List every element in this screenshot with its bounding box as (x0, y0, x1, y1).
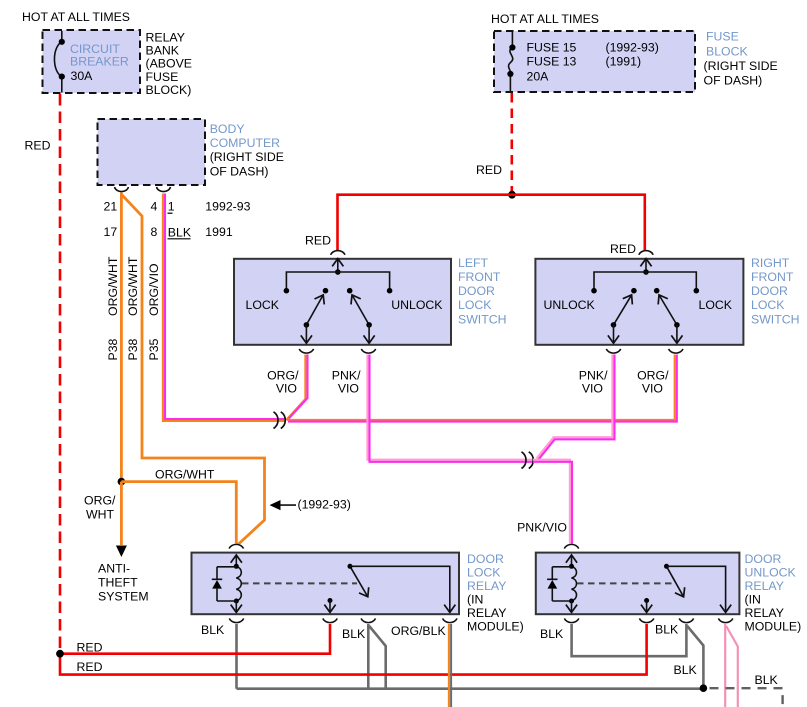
svg-text:BLK: BLK (674, 663, 698, 677)
svg-text:RELAY: RELAY (146, 31, 185, 45)
body computer connector cup (pin 21/17) (115, 187, 129, 192)
svg-text:MODULE): MODULE) (467, 620, 524, 634)
left switch: pin arrows down (305, 325, 307, 343)
svg-text:(IN: (IN (467, 593, 483, 607)
lock relay: contact arm (350, 566, 368, 597)
wire: PNK/VIO from right switch (violet stripe) (538, 355, 614, 460)
svg-text:RED: RED (77, 641, 103, 655)
svg-text:RELAY: RELAY (745, 606, 784, 620)
wire: BLK from door lock relay pin 1 (235, 624, 238, 689)
unlock relay: coil (572, 566, 577, 601)
left switch: contact dots (284, 288, 290, 294)
svg-text:SWITCH: SWITCH (751, 312, 800, 326)
svg-text:FUSE 13: FUSE 13 (527, 55, 577, 69)
svg-text:RED: RED (77, 660, 103, 674)
svg-text:UNLOCK: UNLOCK (745, 566, 797, 580)
svg-text:ORG/: ORG/ (84, 494, 116, 508)
svg-text:LOCK: LOCK (467, 566, 501, 580)
svg-text:SWITCH: SWITCH (458, 312, 507, 326)
wire: PNK/VIO to door unlock relay (pink stripe) (533, 460, 570, 544)
svg-text:UNLOCK: UNLOCK (391, 298, 443, 312)
node: BLK ground junction dot (700, 684, 708, 692)
unlock relay: top connector cap (564, 544, 578, 548)
right switch: common arrow up (645, 259, 647, 272)
svg-text:HOT AT ALL TIMES: HOT AT ALL TIMES (22, 10, 130, 24)
wire: ORG/VIO to right switch (violet stripe) (288, 355, 677, 422)
svg-text:LOCK: LOCK (699, 298, 733, 312)
svg-text:RED: RED (610, 242, 636, 256)
svg-text:UNLOCK: UNLOCK (544, 298, 596, 312)
svg-text:BANK: BANK (146, 44, 180, 58)
right switch: UNLOCK wiper arm (614, 295, 632, 325)
wire: RED from door lock relay pin 2 (60, 624, 330, 654)
svg-text:COMPUTER: COMPUTER (210, 136, 280, 150)
wire: ORG/WHT #1 from body computer pin 21/17 (120, 193, 123, 482)
svg-text:BREAKER: BREAKER (70, 54, 129, 68)
svg-text:BLK: BLK (540, 627, 564, 641)
anti-theft branch arrow (120, 482, 123, 545)
svg-text:DOOR: DOOR (467, 552, 504, 566)
svg-text:OF DASH): OF DASH) (210, 164, 269, 178)
wire: ORG/VIO from left switch (orange stripe) (286, 355, 305, 420)
right switch: top bar (594, 272, 696, 291)
splice crossover symbol (PNK/VIO) (522, 452, 526, 469)
wire: ORG/VIO from left switch (violet stripe) (289, 355, 308, 419)
note arrow (1992-93) (278, 504, 296, 506)
left switch: common node dot (335, 269, 341, 275)
svg-text:BLK: BLK (755, 673, 779, 687)
svg-text:RELAY: RELAY (745, 579, 784, 593)
wire: RED from door unlock relay pin 2 (60, 624, 647, 675)
right switch: wiper pivot dots (611, 322, 617, 328)
door lock relay box (192, 553, 460, 615)
svg-text:OF DASH): OF DASH) (704, 74, 763, 88)
fuse block box (494, 31, 695, 92)
svg-text:SYSTEM: SYSTEM (98, 590, 149, 604)
wire: ORG/VIO from body computer pin 1/BLK (violet stripe) (165, 194, 286, 420)
right switch: bottom connector cups (606, 349, 620, 353)
body computer connector cup (pin 4/8 and 1) (157, 187, 171, 192)
lock relay: top connector cap (229, 544, 243, 548)
svg-text:RED: RED (476, 163, 502, 177)
door unlock relay box (536, 553, 740, 615)
right switch: top connector cap (639, 251, 653, 255)
svg-text:DOOR: DOOR (458, 284, 495, 298)
unlock relay: coil bottom arrow (571, 601, 573, 612)
unlock relay: contact arm (667, 566, 684, 597)
node: red junction on dashed feed (56, 650, 64, 658)
svg-text:DOOR: DOOR (745, 552, 782, 566)
lock relay: pin 2 stub (328, 598, 333, 603)
svg-text:PNK/VIO: PNK/VIO (517, 521, 567, 535)
svg-text:BLK: BLK (168, 225, 192, 239)
left switch: wiper pivot dots (304, 322, 310, 328)
svg-text:ORG/WHT: ORG/WHT (106, 256, 120, 316)
svg-text:P38: P38 (106, 338, 120, 360)
svg-text:FUSE: FUSE (706, 29, 739, 43)
wire: BLK ground bus (lock relay to junction) (237, 687, 704, 690)
wire: ORG/BLK from door lock relay pin 4 (orange stripe) (448, 624, 450, 707)
unlock relay: contact to pin 4 (667, 566, 726, 612)
wire: BLK from door lock relay pin 3 (367, 624, 370, 689)
svg-text:17: 17 (104, 225, 118, 239)
svg-text:LEFT: LEFT (458, 256, 489, 270)
svg-text:FUSE 15: FUSE 15 (527, 41, 577, 55)
lock relay: bottom connector cups (229, 618, 243, 622)
svg-text:BLOCK: BLOCK (706, 44, 748, 58)
lock relay: contact to pin 4 (350, 566, 450, 612)
wire: BLK jumper door unlock relay pins 1-3 (572, 624, 687, 656)
wire: ORG/WHT #2 from body computer pin 4/8 (122, 195, 265, 545)
circuit breaker symbol (54, 31, 61, 93)
svg-text:VIO: VIO (276, 382, 297, 396)
unlock relay: coil-contact dashed link (577, 582, 673, 584)
wire: ORG/VIO to right switch (orange stripe) (287, 355, 675, 420)
svg-text:BLOCK): BLOCK) (146, 83, 192, 97)
left switch: top bar (286, 272, 389, 291)
left switch: top connector cap (331, 251, 345, 255)
svg-text:PNK/: PNK/ (332, 369, 361, 383)
unlock relay: pin 2 stub (644, 598, 649, 603)
svg-text:WHT: WHT (86, 508, 114, 522)
svg-text:(1991): (1991) (606, 55, 642, 69)
wire: red feed to both door lock switches (338, 195, 645, 251)
svg-text:DOOR: DOOR (751, 284, 788, 298)
svg-text:LOCK: LOCK (458, 298, 492, 312)
svg-text:RIGHT: RIGHT (751, 256, 790, 270)
wire: PNK from door unlock relay pin 4 (second) (726, 626, 738, 707)
wire: ORG/VIO from body computer pin 1/BLK (orange stripe) (163, 194, 286, 422)
svg-text:MODULE): MODULE) (745, 620, 802, 634)
wire: BLK dashed to ground (710, 688, 783, 706)
wire: red dashed from fuse block to junction (510, 93, 513, 191)
svg-text:(RIGHT SIDE: (RIGHT SIDE (210, 150, 284, 164)
svg-text:RELAY: RELAY (467, 579, 506, 593)
lock relay: coil (236, 566, 241, 601)
svg-text:ORG/WHT: ORG/WHT (155, 468, 215, 482)
svg-text:P38: P38 (126, 338, 140, 360)
circuit breaker box (relay bank) (43, 30, 141, 93)
svg-text:21: 21 (104, 200, 118, 214)
svg-text:1991: 1991 (205, 225, 233, 239)
svg-text:P35: P35 (147, 338, 161, 360)
svg-text:BLK: BLK (201, 623, 225, 637)
right switch: contact dots (591, 288, 597, 294)
svg-text:THEFT: THEFT (98, 576, 138, 590)
svg-text:FUSE: FUSE (146, 70, 179, 84)
svg-text:1992-93: 1992-93 (205, 200, 250, 214)
svg-text:ANTI-: ANTI- (98, 562, 130, 576)
lock relay: diode D1 (212, 567, 237, 601)
wire: PNK from door unlock relay pin 4 (first) (724, 624, 726, 707)
right switch: pin arrows down (613, 325, 615, 343)
left switch: UNLOCK wiper arm (352, 295, 369, 325)
svg-text:BLK: BLK (655, 623, 679, 637)
lock relay: coil-contact dashed link (242, 582, 357, 584)
svg-text:VIO: VIO (338, 382, 359, 396)
right switch: LOCK wiper arm (659, 295, 677, 325)
svg-text:(ABOVE: (ABOVE (146, 57, 192, 71)
svg-text:BLK: BLK (342, 627, 366, 641)
wire: PNK/VIO from right switch (pink stripe) (537, 355, 613, 459)
node: ORG/WHT junction dot (118, 478, 126, 486)
svg-text:4: 4 (151, 200, 158, 214)
left switch: bottom connector cups (299, 349, 313, 353)
svg-text:VIO: VIO (642, 382, 663, 396)
wire: PNK/VIO to door unlock relay (violet stripe) (533, 462, 572, 544)
svg-text:(IN: (IN (745, 593, 761, 607)
left switch: LOCK wiper arm (306, 295, 323, 325)
svg-text:8: 8 (151, 225, 158, 239)
svg-text:30A: 30A (71, 69, 94, 83)
svg-text:FRONT: FRONT (751, 270, 794, 284)
lock relay: coil top arrow (235, 555, 237, 566)
svg-text:ORG/VIO: ORG/VIO (147, 263, 161, 316)
wire: ORG/WHT #1 to door lock relay (121, 482, 236, 544)
svg-text:RED: RED (25, 139, 51, 153)
svg-text:ORG/: ORG/ (637, 369, 669, 383)
fuse symbol (509, 32, 513, 92)
wire: BLK branch from lock relay pin 3 (369, 626, 386, 689)
wire: BLK branch from unlock relay pin 3 to ground junction (687, 626, 703, 687)
svg-text:PNK/: PNK/ (579, 369, 608, 383)
unlock relay: bottom connector cups (564, 618, 578, 622)
svg-text:(1992-93): (1992-93) (606, 41, 659, 55)
right front door lock switch box (535, 259, 743, 345)
svg-text:RED: RED (305, 234, 331, 248)
svg-text:FRONT: FRONT (458, 270, 501, 284)
wire: ORG/BLK from door lock relay pin 4 (black stripe) (450, 624, 452, 707)
svg-text:LOCK: LOCK (751, 298, 785, 312)
wire: PNK/VIO from left switch (pink stripe) (367, 355, 533, 460)
lock relay: coil bottom arrow (235, 601, 237, 612)
right switch: common node dot (643, 269, 649, 275)
svg-text:ORG/BLK: ORG/BLK (391, 624, 446, 638)
svg-text:BODY: BODY (210, 122, 245, 136)
body computer box (98, 119, 206, 185)
svg-text:(1992-93): (1992-93) (298, 498, 351, 512)
svg-text:ORG/WHT: ORG/WHT (126, 256, 140, 316)
wire: PNK/VIO from left switch (violet stripe) (370, 355, 534, 462)
svg-text:1: 1 (168, 200, 175, 214)
svg-text:20A: 20A (527, 70, 550, 84)
left front door lock switch box (234, 259, 451, 345)
unlock relay: coil top arrow (571, 555, 573, 566)
svg-text:HOT AT ALL TIMES: HOT AT ALL TIMES (491, 12, 599, 26)
svg-text:LOCK: LOCK (246, 298, 280, 312)
wire: red dashed from circuit breaker down left side (59, 94, 62, 667)
splice crossover symbol (ORG/VIO) (274, 412, 278, 429)
node: red junction dot (508, 191, 516, 199)
svg-text:ORG/: ORG/ (267, 369, 299, 383)
unlock relay: diode D2 (547, 567, 571, 601)
svg-text:(RIGHT SIDE: (RIGHT SIDE (704, 59, 778, 73)
left switch: common arrow up (337, 259, 339, 272)
svg-text:VIO: VIO (582, 382, 603, 396)
svg-text:RELAY: RELAY (467, 606, 506, 620)
